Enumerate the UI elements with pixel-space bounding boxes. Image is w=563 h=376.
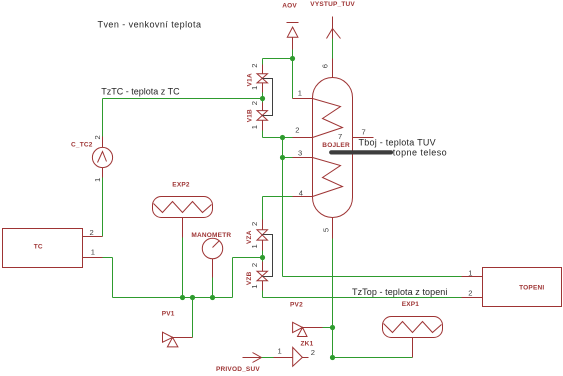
svg-text:1: 1 bbox=[250, 284, 259, 288]
svg-text:ZK1: ZK1 bbox=[301, 340, 314, 347]
svg-text:1: 1 bbox=[91, 248, 95, 257]
svg-text:MANOMETR: MANOMETR bbox=[191, 232, 231, 239]
junction node EXP2 bbox=[180, 295, 185, 300]
junction node boiler pin2 bus bbox=[280, 135, 285, 140]
svg-text:PV1: PV1 bbox=[162, 311, 175, 318]
svg-text:1: 1 bbox=[298, 89, 302, 98]
junction node VZA/VZB mid bbox=[260, 255, 265, 260]
wire PV2 to junction bbox=[323, 327, 333, 329]
svg-text:V1B: V1B bbox=[246, 109, 253, 122]
wire to VZA/VZB mid junction bbox=[233, 257, 263, 259]
wire TzTC vertical down to C_TC2 bbox=[102, 99, 104, 137]
svg-text:1: 1 bbox=[93, 178, 102, 182]
svg-text:1: 1 bbox=[278, 347, 282, 356]
wire TC pin1 to corner bbox=[103, 257, 113, 259]
wire VZB bottom bbox=[262, 291, 264, 298]
wire V1B to pin2 row bbox=[262, 131, 264, 138]
boiler pin 1 bbox=[293, 98, 313, 100]
valve V1B bbox=[246, 101, 267, 130]
valve PV1 bbox=[162, 311, 193, 347]
wire VZA top vertical bbox=[262, 197, 264, 220]
wire TzTC horizontal bbox=[103, 98, 263, 100]
valve V1A bbox=[246, 64, 267, 93]
wire to boiler pin 3 bbox=[283, 157, 293, 159]
boiler pin 6 bbox=[332, 59, 334, 78]
sensor C_TC2 bbox=[71, 135, 113, 182]
svg-text:1: 1 bbox=[250, 86, 259, 90]
mechanical link bracket VZA-VZB bbox=[263, 235, 273, 277]
arrow PRIVOD_SUV bbox=[216, 353, 262, 374]
junction node bottom bbox=[330, 355, 335, 360]
wire horizontal to boiler pin 2 bbox=[263, 137, 293, 139]
junction node PV2 bbox=[330, 325, 335, 330]
junction node MANOMETR bbox=[210, 295, 215, 300]
svg-text:Tven - venkovní teplota: Tven - venkovní teplota bbox=[98, 20, 202, 30]
coil bottom bbox=[313, 158, 343, 197]
arrow VYSTUP_TUV bbox=[310, 1, 355, 38]
expansion vessel EXP2 bbox=[153, 181, 213, 237]
svg-text:4: 4 bbox=[299, 189, 303, 198]
valve VZA bbox=[246, 220, 268, 251]
wire VYSTUP_TUV net bbox=[332, 39, 334, 59]
wire V1A top stub bbox=[262, 59, 264, 65]
svg-text:1: 1 bbox=[250, 125, 259, 129]
svg-text:VYSTUP_TUV: VYSTUP_TUV bbox=[310, 1, 355, 8]
boiler pin 3 bbox=[293, 157, 313, 159]
expansion vessel EXP1 bbox=[383, 301, 443, 358]
junction node AOV/VYSTUP bbox=[290, 56, 295, 61]
svg-text:VZA: VZA bbox=[246, 230, 253, 244]
svg-text:2: 2 bbox=[250, 263, 259, 267]
wire TzTop horizontal to TOPENI pin 2 bbox=[263, 297, 462, 299]
svg-text:2: 2 bbox=[250, 222, 259, 226]
boiler BOJLER bbox=[293, 59, 374, 239]
wire PV1 drop bbox=[192, 298, 194, 338]
junction node PV1 bbox=[190, 295, 195, 300]
wire VZA to boiler pin 4 bbox=[263, 196, 293, 198]
svg-text:BOJLER: BOJLER bbox=[322, 142, 350, 149]
svg-text:topne teleso: topne teleso bbox=[393, 148, 447, 158]
wire bottom horizontal to EXP1 bbox=[333, 357, 413, 359]
svg-text:1: 1 bbox=[468, 268, 472, 277]
svg-text:2: 2 bbox=[311, 348, 315, 357]
svg-text:2: 2 bbox=[468, 289, 472, 298]
box TC bbox=[3, 228, 103, 268]
svg-text:V1A: V1A bbox=[246, 73, 253, 86]
svg-text:TzTC - teplota z TC: TzTC - teplota z TC bbox=[101, 87, 180, 97]
boiler pin 4 bbox=[293, 196, 313, 198]
svg-text:7: 7 bbox=[362, 128, 366, 137]
check valve ZK1 bbox=[274, 340, 316, 366]
svg-text:2: 2 bbox=[250, 64, 259, 68]
svg-text:TOPENI: TOPENI bbox=[519, 285, 544, 292]
wire EXP2 drop bbox=[182, 238, 184, 298]
valve PV2 bbox=[290, 301, 323, 336]
svg-text:TC: TC bbox=[34, 244, 43, 251]
vent AOV bbox=[282, 2, 298, 49]
junction node boiler pin3 bus bbox=[280, 155, 285, 160]
boiler pin 2 bbox=[293, 137, 313, 139]
coil top bbox=[313, 99, 343, 138]
svg-text:PRIVOD_SUV: PRIVOD_SUV bbox=[216, 366, 260, 373]
svg-text:7: 7 bbox=[338, 132, 342, 141]
svg-text:TzTop - teplota z topeni: TzTop - teplota z topeni bbox=[352, 287, 447, 297]
wire VZA/VZB mid stubs bbox=[262, 251, 264, 262]
valve VZB bbox=[246, 262, 268, 291]
wire horizontal to TOPENI pin 1 bbox=[283, 276, 462, 278]
box TOPENI bbox=[462, 268, 562, 307]
wire boiler pin5 vertical bbox=[332, 239, 334, 358]
wire C_TC2 to TC pin 2 bbox=[102, 178, 104, 237]
wire vertical bus left of boiler bbox=[282, 138, 284, 277]
svg-text:2: 2 bbox=[295, 126, 299, 135]
wire vertical from TC bbox=[112, 258, 114, 298]
svg-text:2: 2 bbox=[250, 101, 259, 105]
wire V1A to mid dot bbox=[262, 93, 264, 103]
svg-text:PV2: PV2 bbox=[290, 301, 303, 308]
wire bottom bus bbox=[113, 297, 233, 299]
svg-text:EXP2: EXP2 bbox=[172, 181, 190, 188]
svg-text:2: 2 bbox=[93, 135, 102, 139]
svg-text:6: 6 bbox=[321, 64, 330, 68]
svg-text:2: 2 bbox=[90, 228, 94, 237]
svg-text:5: 5 bbox=[322, 228, 331, 232]
svg-text:AOV: AOV bbox=[282, 2, 297, 9]
wire MANOMETR drop bbox=[212, 278, 214, 298]
svg-text:3: 3 bbox=[298, 149, 302, 158]
svg-text:VZB: VZB bbox=[246, 271, 253, 285]
svg-text:C_TC2: C_TC2 bbox=[71, 142, 93, 149]
junction node TzTC mid V1A/V1B bbox=[260, 96, 265, 101]
wire dot to V1A horizontal bbox=[263, 58, 293, 60]
manometer MANOMETR bbox=[191, 232, 231, 278]
mechanical link bracket V1A-V1B bbox=[263, 79, 273, 116]
heating element bar bbox=[331, 150, 391, 154]
wire corner up bbox=[232, 258, 234, 298]
wire AOV vertical net bbox=[292, 50, 294, 99]
boiler pin 7 bbox=[353, 137, 374, 139]
wire PRIVOD_SUV to ZK1 bbox=[262, 357, 274, 359]
svg-text:Tboj - teplota TUV: Tboj - teplota TUV bbox=[359, 138, 436, 148]
boiler pin 5 bbox=[332, 218, 334, 239]
svg-text:EXP1: EXP1 bbox=[402, 301, 420, 308]
svg-text:1: 1 bbox=[250, 244, 259, 248]
